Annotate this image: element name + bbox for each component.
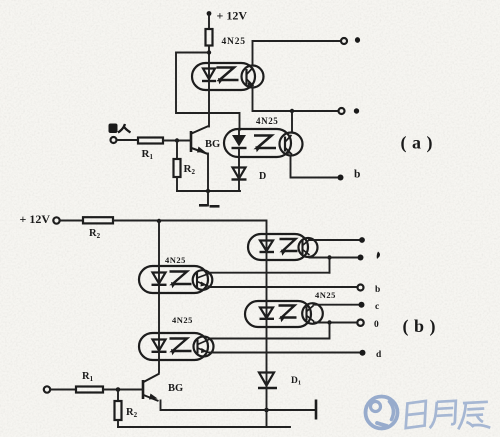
label a (circuit b)	[377, 252, 380, 260]
svg-text:4N25: 4N25	[256, 116, 278, 126]
wire input to R1	[117, 139, 139, 141]
+12V supply terminal (circuit a)	[207, 9, 248, 23]
wire R1 to base (circuit b)	[103, 389, 143, 391]
wire R1 to base	[163, 140, 191, 142]
phototransistor circle of U1	[242, 66, 264, 88]
watermark logo ring	[366, 397, 398, 429]
svg-text:4N25: 4N25	[172, 315, 193, 325]
output terminal c	[359, 302, 365, 308]
watermark character yue	[428, 401, 457, 428]
input terminal (circuit b)	[44, 386, 50, 392]
optocoupler U4 body	[139, 333, 208, 360]
junction base node (circuit b)	[116, 387, 121, 392]
svg-text:b: b	[375, 285, 380, 295]
+12V bus wire to opto5 LED	[113, 221, 267, 235]
bottom rail (circuit b)	[118, 426, 290, 428]
junction on bus	[157, 219, 161, 223]
optocoupler U6 body	[245, 301, 311, 327]
+12V supply (circuit b)	[20, 212, 60, 226]
junction at emitter/ground	[206, 189, 210, 193]
svg-text:D: D	[259, 171, 266, 182]
svg-text:BG: BG	[168, 383, 183, 394]
svg-text:b: b	[354, 169, 360, 181]
phototransistor circle of U6	[302, 303, 323, 324]
emitter wire of U2 to output b	[291, 156, 338, 178]
phototransistor circle of U2	[280, 133, 303, 156]
optocoupler U3 body	[139, 266, 208, 293]
label dot a	[355, 37, 360, 43]
wire from +12V to resistor	[208, 15, 210, 29]
central rail U6 to D1	[266, 327, 268, 372]
svg-text:d: d	[376, 350, 382, 360]
junction U6 emitter	[327, 320, 331, 324]
U5 emitter wire to output a	[310, 257, 358, 259]
output terminal b (circuit b)	[358, 285, 364, 291]
middle label dot	[354, 108, 359, 113]
ground (circuit a)	[199, 191, 220, 206]
LED of U6	[260, 301, 275, 327]
junction D1 cathode	[264, 408, 269, 413]
bottom rail (circuit a)	[177, 190, 240, 192]
output terminal o	[357, 320, 363, 326]
svg-text:+ 12V: + 12V	[217, 9, 248, 23]
svg-text:(a): (a)	[401, 133, 439, 154]
junction at base node	[175, 138, 179, 142]
transistor BG (circuit a)	[191, 126, 209, 154]
svg-text:4N25: 4N25	[165, 255, 186, 265]
resistor R2 (circuit a)	[174, 159, 181, 177]
resistor R2 horizontal (circuit b)	[83, 217, 113, 223]
LED of U1	[202, 63, 216, 90]
LED of U3	[152, 266, 167, 293]
transistor BG (circuit b)	[143, 374, 160, 402]
svg-text:c: c	[375, 302, 379, 312]
watermark character ri	[404, 401, 427, 428]
U3 collector wire to hook	[209, 272, 330, 274]
output terminal b	[338, 175, 344, 181]
U5 collector wire to top terminal	[309, 239, 360, 241]
svg-text:(b): (b)	[403, 316, 442, 337]
resistor R1 (circuit b)	[76, 387, 103, 393]
BG emitter wire to T bar	[161, 401, 317, 411]
wire BG emitter down	[207, 154, 209, 192]
light arrow Z of U4	[170, 339, 192, 356]
output terminal a (top)	[341, 38, 347, 44]
input label (circuit a)	[109, 124, 131, 134]
light arrow Z of U1	[217, 68, 239, 85]
T bar termination	[315, 400, 318, 420]
light arrow Z of U6	[279, 306, 297, 323]
watermark character chen	[457, 402, 490, 430]
wire node to R2v (circuit b)	[117, 390, 119, 402]
top terminal (circuit b)	[359, 237, 365, 243]
hook wire U5 emitter to U3 collector	[329, 258, 331, 273]
junction on middle wire	[290, 109, 294, 113]
svg-text:4N25: 4N25	[315, 290, 336, 300]
U6 emitter wire to output o	[314, 322, 358, 324]
wire input to R1 (circuit b)	[50, 389, 76, 391]
optocoupler U2 body	[224, 129, 291, 157]
middle output terminal	[339, 108, 345, 114]
node junction below resistor	[207, 50, 211, 54]
U4 emitter wire to output d	[210, 352, 360, 354]
wire base node down to R2	[176, 141, 178, 159]
wire R2 to bottom rail	[176, 177, 178, 191]
pull-up resistor (circuit a)	[206, 29, 213, 46]
U6 collector wire to output c	[314, 304, 360, 306]
light arrow Z of U2	[254, 136, 276, 153]
LED of U5	[260, 234, 275, 301]
wire LED1 cathode to BG collector	[208, 90, 210, 127]
svg-text:0: 0	[374, 320, 379, 330]
light arrow Z of U5	[280, 239, 298, 256]
junction U5 emitter	[327, 255, 331, 259]
phototransistor circle of U5	[299, 238, 318, 257]
wire junction to U2 collector	[291, 111, 293, 133]
optocoupler U1 body	[192, 63, 255, 90]
svg-text:+ 12V: + 12V	[20, 212, 51, 226]
wire R2v to bottom rail	[117, 420, 119, 427]
light arrow Z of U3	[170, 272, 192, 289]
left LED rail top	[158, 221, 160, 266]
left rail between U3 and U4	[158, 293, 160, 333]
diode D	[232, 168, 247, 192]
phototransistor circle of U4	[194, 337, 214, 357]
wire loop node to LED2 anode	[176, 53, 240, 131]
resistor R2 vertical (circuit b)	[115, 401, 122, 420]
svg-text:BG: BG	[205, 139, 220, 150]
diode D1	[258, 373, 277, 428]
hook wire U6 emitter to U4 collector	[211, 323, 330, 339]
U3 emitter wire to output b	[209, 286, 358, 288]
emitter wire of U1 to middle output	[253, 88, 339, 112]
optocoupler U5 body	[248, 234, 308, 260]
input terminal (circuit a)	[111, 137, 117, 143]
LED of U2	[232, 129, 247, 168]
output terminal a (circuit b)	[358, 255, 364, 261]
left rail U4 to BG collector	[158, 360, 160, 373]
wire +12V to R2	[60, 220, 83, 222]
output terminal d	[360, 350, 366, 356]
collector wire of U1 to output a	[253, 41, 342, 66]
svg-text:4N25: 4N25	[222, 37, 246, 47]
phototransistor circle of U3	[193, 270, 213, 290]
LED of U4	[152, 333, 167, 360]
resistor R1 (circuit a)	[138, 138, 163, 144]
wire resistor to node	[208, 46, 210, 64]
